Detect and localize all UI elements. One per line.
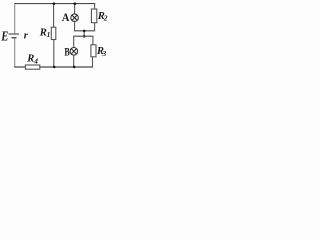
resistor R4 <box>25 65 39 69</box>
wire lamp B branch upper <box>73 36 75 48</box>
node: connector top <box>83 30 86 33</box>
resistor R1 <box>51 27 56 39</box>
wire connector mid <box>83 31 85 36</box>
wire lamp A branch lower <box>74 21 76 31</box>
wire A-block bottom <box>74 30 95 32</box>
wire left upper <box>14 4 16 34</box>
lamp A <box>71 14 79 22</box>
wire R3 branch upper <box>92 36 94 45</box>
svg-text:3: 3 <box>102 49 107 58</box>
wire lamp B branch lower <box>73 55 75 67</box>
node: top junction lamp A <box>74 2 77 5</box>
wire bottom <box>14 66 93 68</box>
wire left lower <box>14 38 16 67</box>
node: connector bottom <box>83 35 86 38</box>
battery E,r : short plate <box>12 37 17 39</box>
wire lamp A branch upper <box>74 4 76 15</box>
svg-text:2: 2 <box>103 13 108 22</box>
svg-text:A: A <box>62 11 70 24</box>
resistor R3 <box>91 45 96 57</box>
wire top <box>14 3 95 5</box>
node: bottom junction lamp B <box>73 66 76 69</box>
svg-text:4: 4 <box>33 57 38 66</box>
svg-text:R: R <box>26 54 34 65</box>
svg-text:B: B <box>64 45 69 59</box>
svg-text:r: r <box>24 31 29 42</box>
svg-text:R: R <box>39 27 47 38</box>
svg-text:1: 1 <box>47 30 51 39</box>
svg-text:E: E <box>0 29 8 44</box>
wire R2 branch lower <box>94 23 96 31</box>
wire R1 branch lower <box>53 39 55 67</box>
battery E,r : long plate <box>9 33 20 35</box>
lamp B <box>70 48 78 56</box>
resistor R2 <box>91 9 96 23</box>
wire R3 branch lower <box>92 57 94 67</box>
node: bottom junction R1 <box>53 66 56 69</box>
wire B-block top <box>73 35 93 37</box>
wire R2 branch upper <box>94 4 96 9</box>
node: top junction R1 <box>53 2 56 5</box>
wire R1 branch upper <box>53 4 55 28</box>
